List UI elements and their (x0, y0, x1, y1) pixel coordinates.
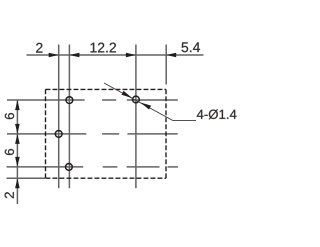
hole callout text 4-&#216;1.4 (197, 109, 237, 119)
left dimension line (16, 100, 18, 204)
leader line shoulder (horizontal) (173, 120, 196, 122)
arrow dim2 left side, tip at bottom edge pointing up (15, 178, 20, 188)
extension line col D (body right edge) (165, 45, 167, 85)
extension line bottom edge (7, 177, 46, 179)
relay body outline right edge (dashed) (165, 89, 167, 178)
extension line col B (left hole column) (68, 45, 70, 189)
center line row 3 (segment c) (127, 166, 160, 168)
top dimension line (27, 54, 204, 56)
leader arrow upper, tip at hole edge pointing down-right (122, 91, 133, 98)
relay body outline bottom edge (dashed) (46, 177, 167, 179)
extension line col A (middle hole column) (58, 45, 60, 189)
hole top-right (133, 96, 140, 103)
center line row 1 (segment c) (127, 99, 178, 101)
relay body outline top edge (dashed) (46, 88, 167, 90)
center line row 1 (segment b) (102, 99, 116, 101)
arrow dim2 top, tip at col A pointing right (49, 53, 59, 58)
center line row 3 (segment d) (168, 166, 179, 168)
arrow dim6a bottom, tip at row 2 pointing down (15, 124, 20, 134)
center line row 1 (segment a) (7, 99, 85, 101)
arrow dim6b bottom, tip at row 3 pointing down (15, 157, 20, 167)
extension line col C (right hole column) (135, 45, 137, 189)
dim text 6 (upper left, rotated) (5, 113, 14, 119)
leader line (diagonal) for hole callout (104, 83, 173, 121)
arrow dim6a top, tip at row 1 pointing up (15, 100, 20, 110)
dim text 5.4 (182, 42, 200, 52)
arrow dim6b top, tip at row 2 pointing up (15, 134, 20, 144)
dim text 12.2 (91, 43, 116, 53)
hole top-left (66, 97, 73, 104)
hole middle-left (55, 131, 62, 138)
arrow dim12.2 left, tip at col B pointing left (69, 53, 79, 58)
center line row 3 (segment b) (103, 166, 118, 168)
arrow dim5.4 right, tip at col D pointing left (166, 53, 176, 58)
center line row 2 (segment a) (7, 133, 86, 135)
dim text 2 (top) (36, 43, 42, 53)
dim text 6 (lower left, rotated) (5, 149, 14, 155)
dim text 2 (bottom left, rotated) (5, 192, 14, 198)
leader arrow lower, tip at hole edge pointing up-left (140, 102, 151, 109)
center line row 2 (segment c) (127, 133, 177, 135)
center line row 3 (segment a) (7, 166, 84, 168)
hole bottom-left (66, 164, 73, 171)
center line row 2 (segment b) (102, 133, 119, 135)
arrow dim12.2 right, tip at col C pointing right (126, 53, 136, 58)
relay body outline left edge (dashed) (45, 89, 47, 178)
